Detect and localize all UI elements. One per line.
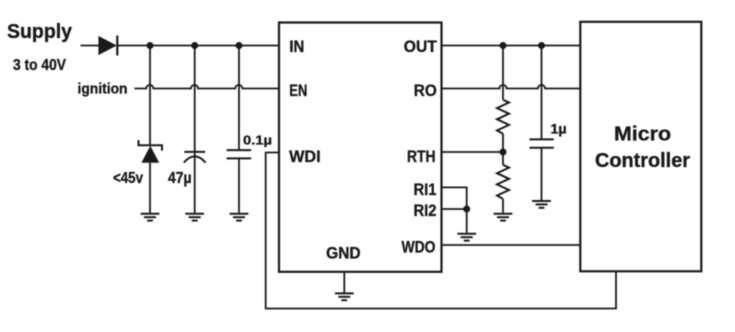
svg-text:WDI: WDI [289,148,321,166]
pin label RTH [407,148,436,166]
svg-text:EN: EN [289,82,307,100]
svg-text:Supply: Supply [7,20,73,43]
svg-text:1µ: 1µ [551,122,567,137]
pin label EN [289,82,307,100]
capacitor 47u (polarized) [184,152,206,163]
resistor R2 [497,165,509,199]
wire RO to microcontroller (hops over branches) [442,85,581,89]
svg-text:3 to 40V: 3 to 40V [13,57,67,74]
pin label OUT [404,38,437,56]
junction: RTH node [500,149,507,156]
net label 3 to 40V [13,57,67,74]
net label Supply [7,20,73,43]
pin label IN [289,38,304,56]
value label <45v [113,170,143,187]
wire R1 to RTH node [502,134,504,152]
diode D1 [98,36,117,56]
wire RI2 pin [442,208,467,210]
wire 0.1u to ground [238,158,240,212]
svg-text:0.1µ: 0.1µ [243,133,272,148]
value label 47u [168,170,192,187]
wire OUT branch down to R1 [502,46,504,100]
svg-text:RI2: RI2 [414,202,437,220]
ground (RI) [457,234,476,241]
svg-text:RTH: RTH [407,148,436,166]
pin label RO [414,82,437,100]
junction: OUT / 1u branch [538,42,545,49]
svg-text:<45v: <45v [113,170,143,187]
wire WDO to microcontroller [442,244,581,246]
wire RTH pin to node [442,151,504,153]
ground (47u branch) [185,214,204,221]
ground (zener branch) [141,214,160,221]
resistor R1 [497,100,509,134]
junction: OUT / divider branch [500,42,507,49]
wire R2 to ground [502,199,504,213]
svg-text:RI1: RI1 [414,181,437,199]
wire RI node to ground [466,209,468,233]
pin label RI2 [414,202,437,220]
IC box U1 [279,23,442,272]
net label ignition [78,82,128,98]
svg-text:Micro: Micro [614,124,671,146]
pin label WDO [402,239,436,257]
wire zener branch vertical [149,46,151,146]
wire OUT to microcontroller [442,45,581,47]
junction: supply rail / 0.1u branch [236,42,243,49]
wire OUT branch down to 1u cap [541,46,543,140]
junction: supply rail / zener branch [147,42,154,49]
ground (1u branch) [532,201,551,208]
wire GND pin down [343,272,345,293]
ground (divider) [494,214,513,221]
junction: supply rail / 47u branch [191,42,198,49]
capacitor 1u [530,139,554,147]
microcontroller box U2 [580,22,701,271]
ground (IC GND) [335,293,354,300]
svg-text:GND: GND [326,244,361,262]
svg-text:WDO: WDO [402,239,436,257]
svg-text:47µ: 47µ [168,170,192,187]
svg-text:ignition: ignition [78,82,128,98]
svg-text:OUT: OUT [404,38,437,56]
wire supply to diode anode [81,45,100,47]
svg-text:Controller: Controller [595,150,690,172]
wire ignition to EN pin (hops over branch wires) [135,85,280,89]
label Micro Controller [595,124,690,172]
ground (0.1u branch) [230,214,249,221]
wire 1u to ground [541,148,543,200]
capacitor 0.1u [227,150,252,158]
zener diode <45v [139,140,163,163]
pin label GND [326,244,361,262]
pin label RI1 [414,181,437,199]
svg-text:RO: RO [414,82,437,100]
svg-text:IN: IN [289,38,304,56]
wire RI1 to RI2 node [442,187,467,209]
value label 1u [551,122,567,137]
wire 47u branch vertical [194,46,196,213]
wire 0.1u branch vertical upper [238,46,240,151]
junction: RI2 node [463,206,470,213]
wire WDI loop to microcontroller [266,153,616,309]
wire diode cathode to IN pin [117,45,279,47]
wire zener to ground [149,163,151,213]
value label 0.1u [243,133,272,148]
wire RTH node to R2 [502,152,504,165]
pin label WDI [289,148,321,166]
